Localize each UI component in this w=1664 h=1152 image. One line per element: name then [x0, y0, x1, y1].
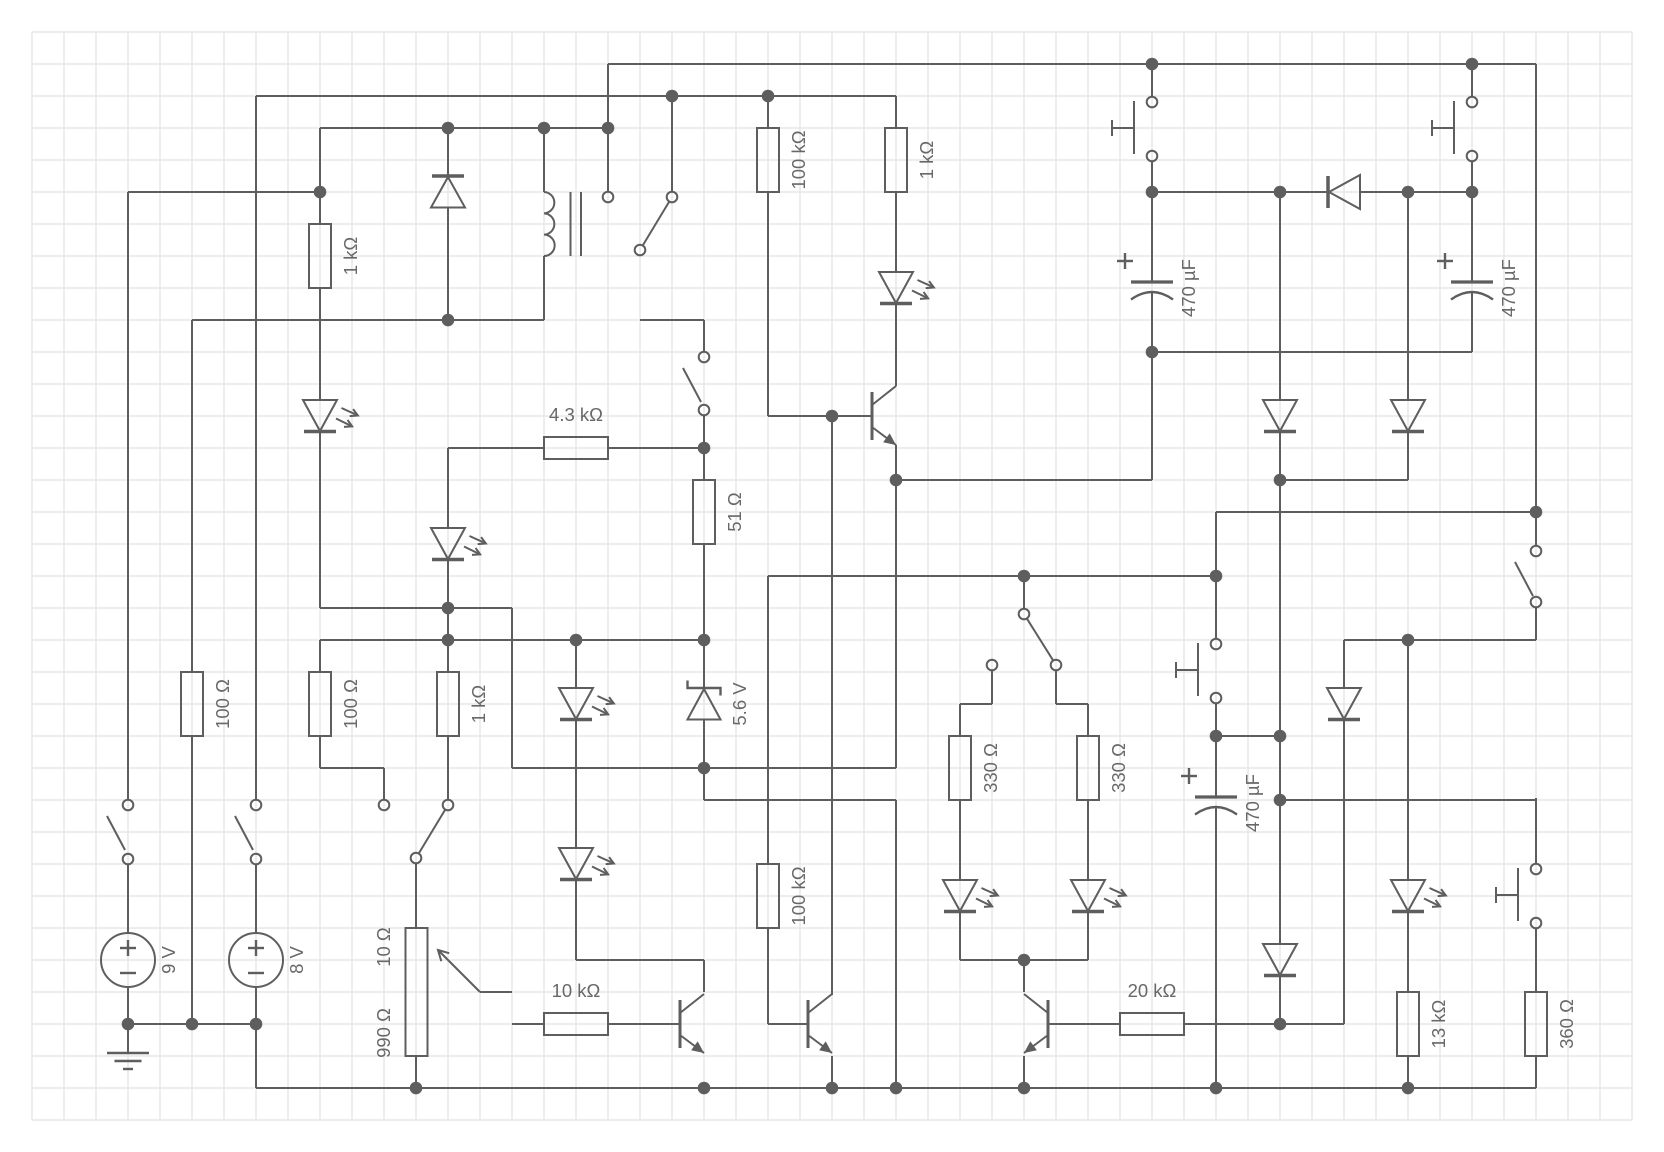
transistor Q4	[808, 994, 832, 1053]
LED D5	[879, 272, 935, 304]
wire	[1152, 351, 1472, 353]
LED D8	[1391, 880, 1447, 912]
wire	[1280, 799, 1536, 801]
wire	[1535, 1056, 1537, 1088]
wire	[447, 128, 449, 176]
pushbutton PB1	[1112, 97, 1157, 162]
svg-text:1 kΩ: 1 kΩ	[468, 685, 489, 724]
wire	[1216, 511, 1536, 513]
junction	[1274, 474, 1287, 487]
wire	[608, 447, 704, 449]
wire	[447, 448, 449, 528]
wire	[1087, 800, 1089, 880]
voltage source 9V	[101, 933, 179, 987]
wire	[1471, 64, 1473, 96]
LED D2	[431, 528, 487, 560]
pushbutton PB3	[1176, 639, 1221, 704]
resistor R11 13k	[1397, 992, 1449, 1056]
wire	[703, 719, 705, 800]
wire	[671, 96, 673, 191]
wire	[1407, 192, 1409, 400]
LED D1	[303, 400, 359, 432]
wire	[256, 95, 896, 97]
wire	[895, 96, 897, 128]
junction	[538, 122, 551, 135]
wire	[1279, 976, 1281, 1024]
wire	[128, 191, 320, 193]
wire	[1023, 960, 1025, 992]
wire	[1471, 162, 1473, 282]
resistor R2 100k	[757, 128, 809, 192]
junction	[1210, 730, 1223, 743]
svg-text:990 Ω: 990 Ω	[373, 1008, 394, 1058]
wire	[1056, 703, 1088, 705]
wire	[192, 319, 544, 321]
svg-text:100 Ω: 100 Ω	[212, 679, 233, 729]
voltage source 8V	[229, 933, 307, 987]
svg-text:100 Ω: 100 Ω	[340, 679, 361, 729]
wire	[128, 1023, 256, 1025]
wire	[575, 880, 577, 960]
wire	[1216, 735, 1280, 737]
wire	[575, 720, 577, 848]
switch S2	[235, 800, 261, 865]
junction	[570, 634, 583, 647]
wire	[319, 640, 321, 672]
wire	[383, 768, 385, 800]
svg-text:20 kΩ: 20 kΩ	[1128, 980, 1177, 1001]
junction	[186, 1018, 199, 1031]
switch S4	[1515, 546, 1541, 608]
capacitor C3 470uF	[1181, 768, 1263, 832]
wire	[319, 736, 321, 768]
svg-text:1 kΩ: 1 kΩ	[340, 237, 361, 276]
wire	[255, 864, 257, 933]
junction	[698, 1082, 711, 1095]
junction	[1402, 1082, 1415, 1095]
capacitor C2 470uF	[1437, 253, 1519, 317]
wire	[1152, 191, 1328, 193]
wire	[1407, 911, 1409, 992]
svg-text:51 Ω: 51 Ω	[724, 492, 745, 532]
wire	[480, 991, 512, 993]
wire	[607, 64, 609, 191]
wire	[1535, 929, 1537, 992]
wire	[320, 127, 608, 129]
resistor R6 1k	[437, 672, 489, 736]
wire	[1151, 64, 1153, 96]
wire	[640, 319, 704, 321]
resistor R8 100k	[757, 864, 809, 928]
wire	[895, 304, 897, 386]
junction	[314, 186, 327, 199]
wire	[1280, 1023, 1344, 1025]
svg-text:100 kΩ: 100 kΩ	[788, 130, 809, 189]
wire	[767, 96, 769, 128]
wire	[255, 987, 257, 1024]
switch SPDT-B	[603, 192, 678, 256]
svg-text:13 kΩ: 13 kΩ	[1428, 999, 1449, 1048]
wire	[960, 703, 992, 705]
resistor R9 330	[949, 736, 1001, 800]
junction	[250, 1018, 263, 1031]
resistor R5 100	[309, 672, 361, 736]
wire	[1048, 1023, 1120, 1025]
wire	[127, 192, 129, 800]
wire	[768, 415, 872, 417]
transistor Q1	[872, 386, 896, 445]
junction	[826, 410, 839, 423]
wire	[1344, 639, 1536, 641]
wire	[1471, 292, 1473, 352]
wire	[895, 445, 897, 768]
wire	[511, 608, 513, 768]
wire	[768, 575, 1216, 577]
wire	[703, 320, 705, 352]
wire	[255, 1024, 257, 1088]
wire	[1151, 162, 1153, 282]
wire	[767, 928, 769, 1024]
wire	[767, 576, 769, 864]
wire	[447, 560, 449, 672]
svg-text:1 kΩ: 1 kΩ	[916, 141, 937, 180]
LED D7	[1071, 880, 1127, 912]
diode D11	[1263, 400, 1297, 432]
svg-text:360 Ω: 360 Ω	[1556, 999, 1577, 1049]
diode D9	[431, 176, 465, 208]
junction	[1530, 506, 1543, 519]
pushbutton PB2	[1432, 97, 1477, 162]
resistor R3 1k	[885, 128, 937, 192]
wire	[512, 767, 896, 769]
wire	[320, 639, 704, 641]
wire	[831, 1056, 833, 1088]
junction	[1274, 1018, 1287, 1031]
wire	[127, 987, 129, 1053]
wire	[575, 640, 577, 688]
wire	[191, 320, 193, 672]
diode D13	[1327, 688, 1361, 720]
wire	[1407, 1056, 1409, 1088]
junction	[1146, 186, 1159, 199]
junction	[602, 122, 615, 135]
pushbutton PB4	[1496, 864, 1541, 929]
switch S1	[107, 800, 133, 865]
wire	[319, 128, 321, 224]
wire	[767, 192, 769, 416]
svg-text:330 Ω: 330 Ω	[980, 743, 1001, 793]
wire	[831, 416, 833, 995]
diode D14	[1263, 944, 1297, 976]
LED D4	[559, 848, 615, 880]
junction	[762, 90, 775, 103]
wire	[447, 208, 449, 320]
resistor R10 330	[1077, 736, 1129, 800]
wire	[959, 704, 961, 736]
wire	[415, 1056, 417, 1088]
junction	[1274, 794, 1287, 807]
svg-text:5.6 V: 5.6 V	[729, 682, 750, 726]
junction	[1274, 186, 1287, 199]
junction	[666, 90, 679, 103]
wire	[191, 736, 193, 1024]
wire	[1151, 292, 1153, 480]
transistor Q3	[1024, 994, 1048, 1053]
wire	[543, 256, 545, 320]
capacitor C1 470uF	[1117, 253, 1199, 317]
wire	[576, 959, 704, 961]
wire	[1343, 640, 1345, 688]
zener diode 5.6V	[688, 681, 750, 726]
wire	[447, 736, 449, 800]
svg-text:10 Ω: 10 Ω	[373, 927, 394, 967]
switch S3	[683, 352, 709, 416]
junction	[890, 474, 903, 487]
wire	[768, 1023, 808, 1025]
junction	[698, 762, 711, 775]
wire	[1279, 192, 1281, 400]
wire	[703, 544, 705, 688]
wire	[1215, 807, 1217, 1088]
wire	[1184, 1023, 1280, 1025]
wire	[1087, 704, 1089, 736]
junction	[442, 122, 455, 135]
junction	[1466, 58, 1479, 71]
switch SPDT-A	[379, 800, 454, 864]
wire	[1280, 479, 1408, 481]
junction	[442, 634, 455, 647]
svg-text:100 kΩ: 100 kΩ	[788, 866, 809, 925]
diode D10	[1328, 175, 1360, 209]
wire	[319, 288, 321, 400]
resistor R4 100	[181, 672, 233, 736]
wire	[896, 479, 1152, 481]
wire	[1023, 1056, 1025, 1088]
junction	[1146, 346, 1159, 359]
junction	[1274, 730, 1287, 743]
junction	[1146, 58, 1159, 71]
wire	[608, 1023, 680, 1025]
wire	[895, 192, 897, 272]
junction	[410, 1082, 423, 1095]
wire	[1407, 432, 1409, 480]
wire	[1535, 64, 1537, 545]
wire	[543, 128, 545, 192]
wire	[959, 800, 961, 880]
svg-text:470 µF: 470 µF	[1242, 774, 1263, 832]
wire	[1343, 720, 1345, 1024]
wire	[415, 864, 417, 928]
resistor R13 4.3k	[544, 404, 608, 459]
wire	[256, 1087, 1536, 1089]
resistor R12 360	[1525, 992, 1577, 1056]
resistor R1 1k	[309, 224, 361, 288]
junction	[442, 314, 455, 327]
junction	[698, 634, 711, 647]
junction	[698, 442, 711, 455]
transistor Q2	[680, 994, 704, 1053]
resistor R15 20k	[1120, 980, 1184, 1035]
wire	[704, 799, 896, 801]
svg-text:10 kΩ: 10 kΩ	[552, 980, 601, 1001]
junction	[1402, 634, 1415, 647]
LED D3	[559, 688, 615, 720]
svg-text:9 V: 9 V	[158, 945, 179, 973]
wire	[255, 96, 257, 800]
ground	[107, 1053, 149, 1069]
wire	[1215, 512, 1217, 638]
junction	[442, 602, 455, 615]
wire	[1407, 640, 1409, 880]
junction	[1018, 570, 1031, 583]
wire	[1087, 911, 1089, 960]
wire	[1535, 608, 1537, 640]
wire	[320, 767, 384, 769]
potentiometer 990/10	[373, 927, 480, 1058]
junction	[1018, 954, 1031, 967]
LED D6	[943, 880, 999, 912]
inductor L1 with core	[544, 192, 581, 256]
svg-text:330 Ω: 330 Ω	[1108, 743, 1129, 793]
wire	[608, 63, 1536, 65]
junction	[1018, 1082, 1031, 1095]
wire	[1215, 704, 1217, 797]
junction	[890, 1082, 903, 1095]
wire	[1279, 432, 1281, 944]
wire	[895, 800, 897, 1088]
switch SPDT-C	[987, 609, 1062, 671]
junction	[1210, 570, 1223, 583]
junction	[1466, 186, 1479, 199]
wire	[960, 959, 1088, 961]
wire	[319, 432, 321, 608]
wire	[127, 864, 129, 933]
wire	[448, 447, 544, 449]
wire	[1535, 798, 1537, 864]
svg-text:470 µF: 470 µF	[1178, 259, 1199, 317]
wire	[703, 416, 705, 480]
svg-text:470 µF: 470 µF	[1498, 259, 1519, 317]
svg-text:8 V: 8 V	[286, 945, 307, 973]
resistor R14 10k	[544, 980, 608, 1035]
wire	[991, 671, 993, 704]
wire	[703, 960, 705, 992]
wire	[1023, 576, 1025, 608]
junction	[122, 1018, 135, 1031]
resistor R7 51	[693, 480, 745, 544]
wire	[512, 1023, 544, 1025]
wire	[320, 607, 512, 609]
wire	[1055, 671, 1057, 704]
wire	[1360, 191, 1472, 193]
diode D12	[1391, 400, 1425, 432]
svg-text:4.3 kΩ: 4.3 kΩ	[549, 404, 603, 425]
junction	[1402, 186, 1415, 199]
wire	[959, 911, 961, 960]
junction	[826, 1082, 839, 1095]
junction	[1210, 1082, 1223, 1095]
